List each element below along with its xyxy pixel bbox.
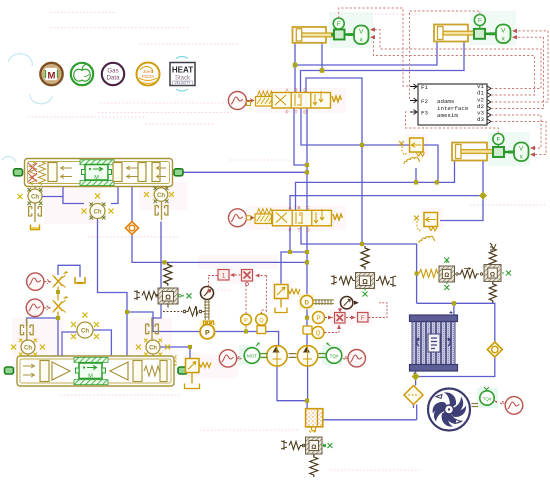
relief valve RV2 (mid right): [414, 213, 438, 244]
wire check valve CV1 to radiator bottom: [416, 357, 495, 386]
signal net v2 d2 to VX2: [491, 31, 548, 109]
wire valve DV1 port A riser: [294, 65, 296, 93]
velocity source VX3: [508, 143, 529, 162]
rotary spring damper RS1: [163, 304, 206, 317]
svg-text:Data: Data: [106, 75, 120, 82]
shaft ladder SH2: [314, 299, 335, 305]
chamber CH4: [11, 339, 45, 357]
throttle valve TH1: [53, 271, 68, 287]
chamber CH3: [144, 187, 174, 204]
wire main supply column: [306, 225, 308, 346]
shaft ladder SH1: [204, 300, 210, 321]
wire valve DV2 port A to cyl3 rod port: [290, 161, 483, 210]
icon ameset orange: [137, 63, 160, 86]
wire node J3 to relief RV2: [440, 196, 483, 221]
VM2 right spring section: [133, 361, 167, 382]
svg-text:interface: interface: [437, 105, 469, 112]
tank T1: [31, 225, 40, 230]
mint tint behind mass-sensor group 1: [329, 12, 373, 48]
wire valve DV1 port T to relief RV1 and node J2: [301, 108, 438, 182]
svg-text:Ω: Ω: [490, 271, 495, 278]
svg-text:V: V: [501, 28, 506, 35]
relief valve RV1 (top right): [399, 138, 425, 164]
force sensor F1: [333, 18, 344, 30]
rotary load RL4 (omega box bottom): [281, 437, 333, 477]
signal net v1 d1 to VX1: [371, 30, 541, 95]
torque source TQ2 (fan drive): [472, 387, 499, 408]
accumulator fork AC4: [20, 318, 33, 341]
svg-text:F1: F1: [421, 84, 428, 91]
VM2 spool mass (green M box): [76, 363, 106, 380]
rotary load RL2 (omega box mid): [331, 246, 396, 297]
svg-text:M: M: [88, 374, 93, 380]
svg-text:d3: d3: [477, 116, 484, 123]
svg-text:Ω: Ω: [444, 273, 449, 279]
wire relief RV4 to node J4: [281, 252, 307, 284]
chamber CH1: [18, 187, 64, 206]
wire oil volume TV1 to CV2: [323, 419, 417, 421]
svg-text:A: A: [285, 88, 288, 93]
svg-text:F: F: [361, 316, 365, 322]
VM2 end connectors: [5, 367, 188, 374]
svg-text:D: D: [305, 300, 310, 306]
VM2 left plates and arrows: [23, 361, 49, 382]
svg-text:d1: d1: [477, 90, 484, 97]
svg-text:adams: adams: [437, 98, 454, 105]
check valve CV3 (left line): [126, 222, 139, 235]
wire radiator bottom port stub: [415, 371, 417, 377]
VM1 end connectors: [14, 169, 184, 176]
rotary load RL3 (omega box right): [456, 243, 511, 303]
wire valve DV2 port B to cyl3 head port: [296, 161, 455, 210]
orange link X1-X2: [57, 287, 59, 319]
svg-text:Q: Q: [316, 331, 321, 337]
wire radiator top header line: [417, 303, 495, 342]
svg-text:Ch: Ch: [24, 346, 32, 352]
signal source S2 (lower valve): [229, 209, 254, 227]
svg-text:M: M: [48, 71, 56, 82]
mass M3: [493, 147, 508, 157]
wire chamber CH5 to manifold VM2 right port: [93, 330, 111, 356]
relief valve RV3 (bottom left): [174, 355, 211, 389]
svg-text:Ch: Ch: [149, 346, 157, 352]
mint tint behind mass-sensor group 2: [470, 11, 516, 45]
mint tint behind mass-sensor group 3: [488, 132, 530, 166]
wire main drop valve DV1 to valve DV2: [306, 108, 308, 210]
accumulator fork AC6: [146, 318, 159, 341]
rotary load RL1 (omega box left): [134, 263, 192, 305]
wire check valve CV2 to tank line: [414, 405, 417, 420]
svg-text:F: F: [496, 138, 500, 144]
icon HEAT stack: [170, 57, 195, 92]
cylinder C3 (right middle): [452, 143, 493, 161]
throttle valve TH2: [53, 296, 68, 312]
valve manifold VM1 body: [25, 159, 173, 187]
signal arrows around FB1/MX1: [209, 275, 241, 287]
wire accumulator AC4 to node J6 and manifold VM2: [27, 318, 59, 356]
chamber CH2: [82, 194, 114, 220]
wire manifold VM1 right connector to main drop: [183, 171, 307, 173]
VM2 ground pads: [74, 357, 108, 384]
wire throttle TH1 to tank T2: [58, 265, 80, 277]
torque source TQ1: [319, 343, 343, 365]
mass M2: [474, 29, 489, 39]
VM1 pistons and arrows: [48, 163, 166, 182]
signal source S6: [344, 350, 366, 367]
wire manifold VM1 port to chamber CH2 right: [111, 187, 118, 204]
VM1 ground pads (green hatch): [80, 160, 114, 186]
svg-text:PIZZA: PIZZA: [142, 74, 155, 79]
svg-text:V: V: [359, 29, 364, 36]
svg-text:Ω: Ω: [311, 444, 316, 451]
svg-text:Q: Q: [259, 318, 264, 324]
wire cyl1 left port to cyl2 left port: [295, 42, 437, 65]
DV2 port labels: [288, 205, 310, 233]
check valve CV2 (dashed diamond): [404, 386, 423, 405]
svg-text:F3: F3: [421, 110, 428, 117]
wire accumulator AC3 drop to accumulator AC6: [152, 222, 161, 327]
flow sensor QS1: [303, 326, 324, 339]
svg-text:MOT: MOT: [247, 354, 257, 359]
svg-text:B: B: [294, 88, 297, 93]
directional valve DV1 (upper 4/3): [247, 91, 342, 108]
svg-text:VELOCITY: VELOCITY: [175, 81, 192, 85]
prime mover PM1 (P crown): [200, 321, 216, 339]
VM1 left spring section: [28, 162, 46, 184]
chamber CH5: [62, 313, 99, 357]
function block FB1 (f(x)=1): [218, 270, 229, 281]
svg-text:1: 1: [222, 273, 226, 280]
motor MOT1: [239, 343, 260, 365]
decorative faint marks: [2, 54, 52, 162]
multiplier MX2: [335, 313, 346, 324]
wire valve DV2 port P drop: [289, 225, 291, 252]
accumulator fork AC3: [155, 202, 168, 221]
rotary load RL5 (omega box, fan line): [419, 258, 455, 291]
pump P2: [289, 346, 318, 366]
pressure sensor PS1: [313, 312, 325, 324]
dashed links P/Q to multiplier MX1: [246, 276, 266, 314]
force sensor F3: [493, 134, 504, 148]
svg-text:T: T: [295, 110, 298, 115]
wire valve DV1 port C loop to node T-line: [306, 78, 362, 244]
wire radiator top port stub: [453, 303, 455, 315]
displacement sensor DS1: [299, 294, 315, 310]
signal net F1 to adams: [339, 8, 409, 86]
wire valve DV2 port T to radiator riser: [301, 225, 417, 303]
signal arrowheads into velocity sources: [370, 27, 535, 156]
wire chamber CH6 to relief RV3: [160, 347, 190, 359]
function block FB2 (F): [358, 313, 369, 323]
signal source S1 (upper valve): [228, 92, 253, 110]
speed sensor W1: [201, 287, 214, 300]
svg-text:P: P: [288, 228, 291, 233]
svg-text:P: P: [316, 316, 320, 322]
fan FAN1: [428, 389, 470, 431]
wire manifold VM1 drain through check valve CV3: [132, 187, 307, 263]
signal source S7 (fan): [494, 397, 523, 415]
flow sensor QS2 (left pair): [256, 314, 268, 334]
svg-text:F: F: [337, 22, 341, 28]
signal net v3 d3 to VX3: [491, 115, 546, 155]
VM2 left poppet triangle: [52, 362, 70, 380]
wire manifold VM1 port to chamber CH2 left: [63, 187, 84, 204]
velocity source VX1: [348, 26, 369, 45]
icon M motor-ware: [40, 63, 62, 85]
svg-text:T: T: [298, 228, 301, 233]
co-simulation block U1 adams interface: [410, 83, 491, 125]
speed sensor W2: [341, 297, 360, 309]
svg-text:P: P: [244, 318, 248, 324]
VM1 spool mass (green M box): [82, 165, 112, 182]
svg-text:F2: F2: [421, 98, 428, 105]
signal source S5: [219, 350, 241, 367]
wire pumps suction to oil volume TV1: [277, 366, 308, 409]
wire node J5 to pump P1 suction header: [127, 312, 279, 346]
svg-text:B: B: [297, 205, 300, 210]
wire cyl1 right port to cyl2 right port and valve DV1 port B: [301, 42, 465, 93]
svg-text:Ω: Ω: [362, 279, 368, 286]
cylinder C1 (top middle): [293, 27, 333, 43]
wire relief RV1 drain stub: [415, 168, 417, 182]
thermal oil volume TV1: [306, 409, 323, 433]
pump P1: [261, 346, 288, 366]
svg-text:P: P: [205, 330, 210, 337]
relief valve RV4 (mid): [275, 285, 301, 313]
accumulator fork AC1: [29, 203, 42, 222]
icon apple (green): [71, 63, 93, 85]
cylinder C2 (top right): [434, 25, 474, 42]
directional valve DV2 (lower 4/3): [247, 209, 343, 226]
svg-text:TQ#: TQ#: [483, 396, 492, 401]
svg-text:HEAT: HEAT: [172, 66, 193, 75]
tank T2 (bracket): [75, 277, 85, 283]
valve manifold VM2 body: [17, 356, 174, 386]
heat exchanger HX1 (radiator): [410, 311, 458, 375]
signal net F2 to adams: [410, 11, 480, 100]
signal net F3 to adams: [406, 112, 499, 134]
force sensor F2: [474, 15, 485, 29]
svg-text:amesim: amesim: [437, 112, 458, 119]
svg-text:F: F: [478, 19, 482, 25]
wire chamber CH2 to manifold VM2: [98, 219, 128, 357]
svg-text:TQ#: TQ#: [330, 354, 339, 359]
svg-text:Ch: Ch: [94, 210, 102, 216]
DV1 port labels: [285, 88, 307, 115]
wire valve DV1 port P jog to main drop: [294, 108, 307, 165]
svg-text:V: V: [519, 146, 524, 153]
mass M1: [331, 30, 348, 40]
check valve CV1 (orange diamond circle): [487, 342, 502, 357]
velocity source VX2: [489, 25, 511, 44]
svg-text:P: P: [285, 110, 288, 115]
multiplier MX1: [242, 270, 253, 286]
chamber CH6: [136, 339, 170, 357]
signal source S4: [26, 299, 50, 316]
icon gas data: [102, 63, 124, 85]
svg-text:Ch: Ch: [31, 195, 39, 201]
svg-text:A: A: [288, 205, 291, 210]
svg-text:Gas: Gas: [107, 68, 118, 75]
VM2 right poppet triangle: [110, 362, 128, 380]
svg-text:Ch: Ch: [81, 329, 89, 335]
svg-text:M: M: [94, 175, 99, 181]
signal source S3: [27, 273, 51, 290]
sensor cluster dashed signals: [325, 303, 388, 333]
wire chamber CH1 stub: [34, 203, 36, 206]
pressure sensor PS2 (left pair): [241, 314, 252, 331]
svg-text:Ch: Ch: [157, 193, 165, 199]
svg-text:Ω: Ω: [165, 295, 171, 302]
